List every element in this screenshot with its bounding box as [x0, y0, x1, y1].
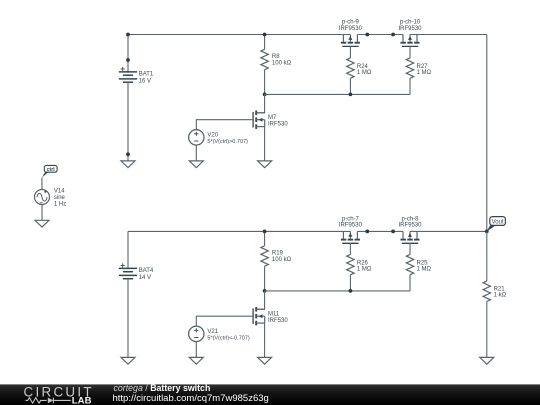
- svg-text:M11: M11: [268, 311, 280, 317]
- wire: R8 top lead: [264, 35, 266, 50]
- svg-text:100 kΩ: 100 kΩ: [272, 60, 292, 66]
- wire: p-ch-9 gate lead: [349, 46, 351, 58]
- wire: right vertical drop to Vout node: [486, 35, 488, 232]
- voltage source V21: [189, 326, 204, 341]
- svg-text:100 kΩ: 100 kΩ: [272, 257, 292, 263]
- wire: ctrl tag to V14: [41, 178, 43, 190]
- svg-text:1 MΩ: 1 MΩ: [357, 267, 372, 273]
- wire: BAT4 top lead: [127, 231, 129, 268]
- junction: R19 bottom node: [263, 289, 267, 293]
- wire: V20 to M7 gate: [196, 120, 253, 130]
- ground (V14): [35, 220, 49, 227]
- wire: M11 drain lead: [256, 291, 264, 309]
- wire: R26 bottom lead: [349, 275, 351, 291]
- wire: upper rail left (BAT1+ to p-ch-9): [128, 34, 350, 36]
- wire: BAT1 top lead: [127, 35, 129, 72]
- ground (V20): [189, 161, 203, 168]
- resistor R24: [347, 58, 354, 78]
- svg-text:R19: R19: [272, 251, 284, 257]
- junction: R8 top on rail: [263, 33, 267, 37]
- resistor R25: [406, 254, 413, 274]
- svg-text:R27: R27: [417, 64, 429, 70]
- wire: M7 drain lead: [256, 94, 264, 112]
- ground (V21): [189, 357, 203, 364]
- transistor M11 IRF530 (n-channel MOSFET): [253, 307, 265, 325]
- junction: R26 bottom: [349, 289, 353, 293]
- wire: upper rail right of p-ch-10: [410, 34, 487, 36]
- svg-text:BAT4: BAT4: [139, 268, 154, 274]
- ground (BAT4): [121, 357, 135, 364]
- wire: M7 source to ground: [264, 127, 266, 161]
- svg-text:p-ch-7: p-ch-7: [342, 216, 360, 222]
- junction: rail corner at BAT1: [126, 33, 130, 37]
- wire: V21 to M11 gate: [196, 316, 253, 326]
- svg-text:ctrl: ctrl: [47, 167, 56, 173]
- wire end dot on lower rail (left): [365, 230, 369, 234]
- wire: M11 source to ground: [264, 323, 266, 357]
- wire: R19 top lead: [264, 231, 266, 245]
- wire: gate pulldown bus (lower): [265, 290, 410, 292]
- ground (BAT1): [121, 161, 135, 168]
- resistor R21: [483, 281, 490, 301]
- node ctrl tag: [42, 172, 49, 178]
- wire: V20 bottom lead: [195, 145, 197, 161]
- svg-text:5*(V(ctrl)<-0.707): 5*(V(ctrl)<-0.707): [207, 336, 250, 342]
- svg-text:14 V: 14 V: [139, 275, 151, 281]
- ground (R21): [480, 357, 494, 364]
- wire: R8 bottom lead: [264, 70, 266, 95]
- node Vout tag: [487, 226, 496, 232]
- wire: lower rail left (BAT4+ to p-ch-7): [128, 230, 350, 232]
- wire: R24 bottom lead: [349, 78, 351, 94]
- svg-text:V20: V20: [207, 132, 218, 138]
- wire: R21 to ground: [486, 302, 488, 358]
- wire: p-ch-10 gate lead: [409, 46, 411, 58]
- svg-text:http://circuitlab.com/cq7m7w98: http://circuitlab.com/cq7m7w985z63g: [113, 393, 269, 404]
- transistor p-ch-10 IRF9530 (p-channel MOSFET): [401, 35, 420, 47]
- transistor p-ch-7 IRF9530 (p-channel MOSFET): [341, 231, 360, 243]
- svg-text:BAT1: BAT1: [139, 72, 154, 78]
- svg-text:LAB: LAB: [72, 396, 92, 405]
- transistor M7 IRF530 (n-channel MOSFET): [253, 111, 265, 129]
- resistor R19: [261, 246, 268, 266]
- wire: p-ch-8 gate lead: [409, 243, 411, 255]
- svg-text:R8: R8: [272, 54, 280, 60]
- wire: BAT1 bottom lead: [127, 82, 129, 161]
- wire: upper rail between p-ch-9 and p-ch-10: [357, 34, 403, 36]
- svg-text:1 MΩ: 1 MΩ: [417, 267, 432, 273]
- wire: Vout to R21: [486, 231, 488, 281]
- wire: V21 bottom lead: [195, 342, 197, 358]
- svg-text:p-ch-10: p-ch-10: [400, 20, 421, 26]
- junction: R19 top on rail: [263, 230, 267, 234]
- svg-text:M7: M7: [268, 115, 277, 121]
- wire: V14 bottom lead: [41, 205, 43, 221]
- svg-text:1 Hz: 1 Hz: [54, 202, 66, 208]
- svg-text:R21: R21: [494, 286, 506, 292]
- wire end dot on lower rail (right): [391, 230, 395, 234]
- svg-text:5*(V(ctrl)>0.707): 5*(V(ctrl)>0.707): [207, 139, 248, 145]
- voltage source V14 (sine): [35, 190, 50, 205]
- svg-text:16 V: 16 V: [139, 78, 151, 84]
- svg-text:sine: sine: [54, 195, 66, 201]
- battery BAT4: [119, 268, 137, 278]
- transistor p-ch-8 IRF9530 (p-channel MOSFET): [401, 231, 420, 243]
- wire end dot above BAT1: [126, 58, 130, 62]
- wire end dot on upper rail (right): [391, 33, 395, 37]
- ground (M7): [258, 161, 272, 168]
- svg-text:1 MΩ: 1 MΩ: [357, 70, 372, 76]
- transistor p-ch-9 IRF9530 (p-channel MOSFET): [341, 35, 360, 47]
- voltage source V20: [189, 130, 204, 145]
- svg-text:p-ch-9: p-ch-9: [342, 20, 360, 26]
- battery BAT1: [119, 72, 137, 82]
- junction: Vout node: [485, 230, 489, 234]
- svg-text:V14: V14: [54, 188, 65, 194]
- svg-text:IRF9530: IRF9530: [398, 223, 422, 229]
- svg-text:Vout: Vout: [492, 219, 504, 225]
- wire: R27 bottom lead: [409, 78, 411, 94]
- svg-text:R25: R25: [417, 260, 429, 266]
- svg-text:IRF530: IRF530: [268, 318, 288, 324]
- svg-text:IRF9530: IRF9530: [339, 26, 363, 32]
- junction: R24 bottom: [349, 93, 353, 97]
- wire: R25 bottom lead: [409, 275, 411, 291]
- svg-text:IRF9530: IRF9530: [398, 26, 422, 32]
- wire: p-ch-7 gate lead: [349, 243, 351, 255]
- svg-text:R26: R26: [357, 260, 369, 266]
- wire end dot on upper rail (left): [365, 33, 369, 37]
- junction: R8 bottom node: [263, 93, 267, 97]
- svg-text:IRF9530: IRF9530: [339, 223, 363, 229]
- wire: gate pulldown bus (upper): [265, 93, 410, 95]
- wire: lower rail between p-ch-7 and p-ch-8: [357, 230, 403, 232]
- svg-text:V21: V21: [207, 329, 218, 335]
- resistor R26: [347, 254, 354, 274]
- svg-text:p-ch-8: p-ch-8: [401, 216, 419, 222]
- wire: R19 bottom lead: [264, 266, 266, 291]
- ground (M11): [258, 357, 272, 364]
- resistor R27: [406, 58, 413, 78]
- wire: lower rail right of p-ch-8 to Vout: [410, 230, 487, 232]
- svg-text:1 MΩ: 1 MΩ: [417, 70, 432, 76]
- resistor R8: [261, 49, 268, 69]
- svg-text:IRF530: IRF530: [268, 122, 288, 128]
- svg-text:cortega / Battery switch: cortega / Battery switch: [114, 383, 211, 393]
- wire: BAT4 bottom lead: [127, 279, 129, 358]
- svg-text:1 kΩ: 1 kΩ: [494, 293, 507, 299]
- wire end dot below BAT1: [126, 152, 130, 156]
- svg-text:R24: R24: [357, 64, 369, 70]
